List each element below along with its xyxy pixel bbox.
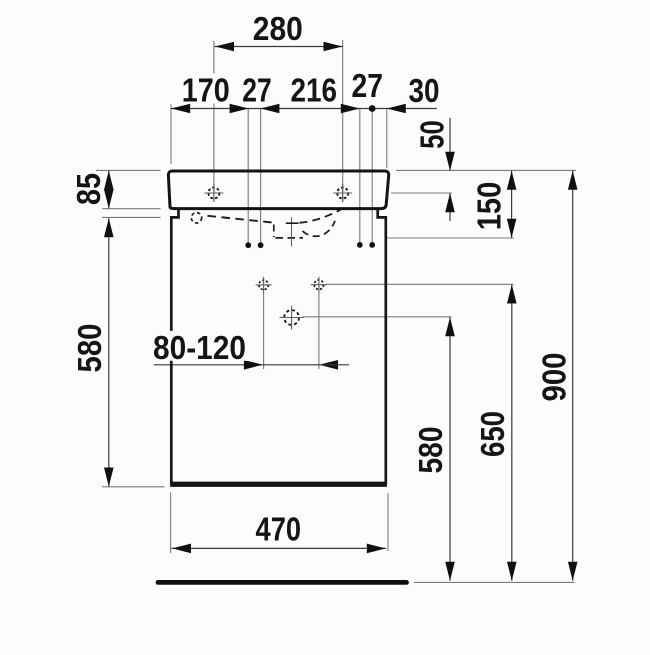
extension line: right bolt dot 1 xyxy=(359,109,361,243)
extension line: floor level right xyxy=(414,581,575,583)
label 27 (first) xyxy=(239,74,275,104)
svg-text:280: 280 xyxy=(253,10,303,47)
extension line: lower fixing hole 2 down to 80-120 dim xyxy=(318,292,320,370)
faucet hole left dashed circle xyxy=(208,188,219,199)
svg-text:80-120: 80-120 xyxy=(153,329,246,366)
extension line: 150-dim bottom level xyxy=(387,237,514,239)
extension line: left bolt dot 1 xyxy=(247,109,249,243)
svg-text:50: 50 xyxy=(414,120,451,149)
svg-text:150: 150 xyxy=(471,182,508,231)
bolt dot pair left xyxy=(245,242,251,248)
label 470 xyxy=(253,513,304,543)
cabinet pedestal outline with top notches xyxy=(171,210,385,483)
faucet hole left cross xyxy=(204,192,223,194)
dashed drain channel corner down xyxy=(273,225,275,238)
svg-text:27: 27 xyxy=(242,72,272,109)
svg-text:216: 216 xyxy=(291,72,338,109)
extension line: basin top edge level, right side xyxy=(396,169,576,171)
drain hole cross xyxy=(280,317,304,319)
svg-text:580: 580 xyxy=(412,427,449,474)
extension line: chain point to basin right corner xyxy=(386,109,388,169)
drain hole dashed circle xyxy=(284,310,299,325)
fixing hole 2 dashed circle xyxy=(314,280,323,289)
dimension 470 line xyxy=(172,547,387,549)
extension line: right bolt dot 2 xyxy=(371,109,373,243)
svg-text:27: 27 xyxy=(352,67,384,104)
bolt dot pair right xyxy=(357,242,363,248)
dashed drain channel bottom run xyxy=(276,237,304,239)
extension line: cabinet bottom-right corner down to 470-dim xyxy=(387,493,389,551)
svg-text:30: 30 xyxy=(409,72,440,109)
svg-text:470: 470 xyxy=(256,511,302,548)
cabinet bottom edge (thick) xyxy=(170,483,387,487)
label 80-120 xyxy=(150,331,249,361)
label 216 xyxy=(288,74,341,104)
extension line: left bolt dot 2 xyxy=(260,109,262,243)
chain dimension line 170/27/216/27/30 xyxy=(171,108,437,110)
extension line: drain hole level to 580-dim xyxy=(303,316,452,318)
extension line: basin bottom left for 85-dim xyxy=(102,208,161,210)
extension line: chain point at basin left edge xyxy=(170,104,172,164)
extension line: lower fixing hole 1 down to 80-120 dim xyxy=(263,292,265,370)
label 30 xyxy=(406,74,443,104)
faucet hole right cross xyxy=(333,192,352,194)
dashed overflow outer arc xyxy=(300,210,341,223)
dimension 900 line xyxy=(572,171,574,581)
dimension 50 line upper part xyxy=(449,118,451,171)
drain centerline cross dash xyxy=(286,222,299,224)
dimension 580 right line xyxy=(449,317,451,581)
drain centerline vertical xyxy=(291,217,293,246)
dashed drain channel left run xyxy=(208,216,274,223)
fixing hole 2 cross xyxy=(311,284,327,286)
dimension 650 line xyxy=(511,285,513,581)
fixing hole 1 dashed circle xyxy=(259,280,268,289)
washbasin outline xyxy=(168,171,388,209)
dimension 580 left line xyxy=(108,218,110,486)
dimension 150 line xyxy=(511,171,513,238)
label 27 (second) xyxy=(349,69,387,99)
extension line: cabinet bottom left for 580-dim xyxy=(102,486,165,488)
extension line: cabinet bottom-left corner down to 470-dim xyxy=(170,493,172,554)
label 170 xyxy=(179,74,233,104)
svg-text:85: 85 xyxy=(70,173,107,205)
extension line: fixing holes level to 650-dim xyxy=(326,283,514,285)
extension line: faucet hole axis right to 50-dim xyxy=(391,192,452,194)
dimension 280 line xyxy=(215,46,343,48)
extension line: basin top left for 85-dim xyxy=(96,169,161,171)
svg-text:170: 170 xyxy=(182,72,230,109)
label 280 xyxy=(250,12,306,42)
svg-text:650: 650 xyxy=(474,411,511,457)
extension line: right faucet hole vertical axis xyxy=(342,40,344,202)
extension line: left faucet hole vertical axis xyxy=(213,41,215,202)
dashed overflow inner arc xyxy=(303,221,336,236)
extension line: cabinet top left for 580-dim xyxy=(102,216,161,218)
dimension 80-120 line with outside arrows xyxy=(154,364,263,366)
dimension 50 line lower part xyxy=(449,193,451,221)
dimension 85 line xyxy=(108,171,110,209)
svg-text:900: 900 xyxy=(536,353,573,402)
faucet hole right dashed circle xyxy=(337,188,348,199)
svg-text:580: 580 xyxy=(71,324,108,373)
chain dimension dot between 27 and 30 xyxy=(369,105,376,112)
dashed overflow inlet circle xyxy=(191,213,201,223)
floor line xyxy=(158,580,407,585)
fixing hole 1 cross xyxy=(256,284,272,286)
